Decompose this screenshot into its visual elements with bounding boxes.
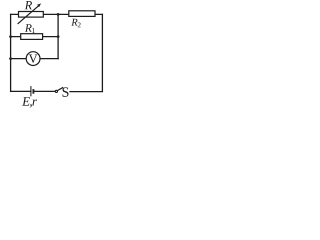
- resistor R2: [69, 11, 95, 17]
- wire voltmeter branch: [11, 58, 59, 60]
- label E,r: [22, 97, 37, 108]
- wire right vertical: [101, 14, 103, 91]
- wire R1 branch: [11, 36, 59, 38]
- junction dot node B (top wire / middle vertical): [57, 13, 60, 16]
- wire left vertical: [10, 14, 12, 91]
- wire bottom (left corner to battery): [11, 90, 31, 92]
- junction dot node (middle vertical / R1 branch): [57, 35, 60, 38]
- wire bottom (battery to switch): [33, 90, 55, 92]
- resistor R (variable rheostat): [18, 3, 44, 24]
- wire top (left node to right): [11, 13, 103, 15]
- label R2: [71, 19, 80, 28]
- battery E,r: [31, 86, 34, 96]
- wire bottom (switch to right corner): [70, 91, 102, 93]
- resistor R1: [21, 34, 43, 40]
- label R: [25, 1, 32, 9]
- switch S: [55, 87, 63, 92]
- voltmeter V: [26, 52, 40, 66]
- label R1: [25, 24, 35, 33]
- label S: [63, 87, 69, 96]
- junction dot node A (left, R1 branch): [9, 35, 12, 38]
- wire middle vertical (node B down to voltmeter branch): [57, 14, 59, 58]
- junction dot node (left, voltmeter branch): [9, 57, 12, 60]
